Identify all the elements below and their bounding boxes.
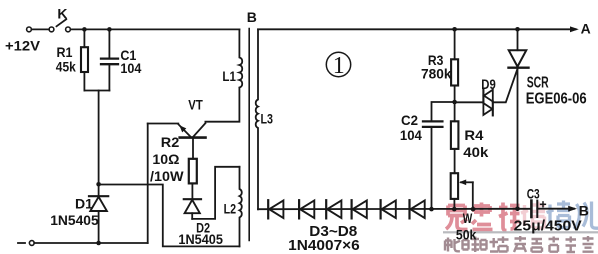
svg-text:A: A (581, 20, 591, 36)
diode D7 (381, 200, 396, 218)
svg-text:104: 104 (400, 127, 422, 143)
node (471, 207, 476, 212)
svg-text:1N5405: 1N5405 (178, 231, 223, 247)
svg-text:L3: L3 (261, 111, 274, 127)
node (96, 241, 101, 246)
diode D2 (184, 199, 201, 219)
wire diode chain (258, 208, 531, 210)
node (515, 207, 520, 212)
svg-text:L1: L1 (222, 68, 236, 84)
svg-text:EGE06-06: EGE06-06 (526, 90, 587, 107)
svg-text:C3: C3 (527, 185, 540, 201)
resistor R3 (451, 29, 458, 102)
wire emitter (148, 123, 179, 125)
node (452, 207, 457, 212)
svg-text:/10W: /10W (150, 168, 184, 184)
watermark peixun blue (547, 201, 598, 230)
diode D3 (268, 200, 283, 218)
svg-text:VT: VT (188, 96, 203, 112)
winding L2 (240, 167, 242, 247)
SCR EGE06-06 (509, 29, 529, 208)
watermark gray rule (443, 231, 598, 233)
node (452, 27, 457, 32)
diode D8 (410, 200, 425, 218)
winding L3 (256, 29, 258, 209)
wire gate (493, 69, 518, 102)
label circled 1 (326, 52, 350, 79)
capacitor C2 (423, 121, 442, 209)
svg-text:W: W (463, 210, 473, 226)
winding L1 (239, 29, 242, 87)
svg-text:1N5405: 1N5405 (50, 212, 99, 228)
diode D1 (89, 196, 108, 243)
node (515, 27, 520, 32)
terminal B (568, 206, 577, 212)
svg-text:104: 104 (120, 60, 141, 76)
svg-text:K: K (57, 5, 67, 21)
wire D2 to L2 (192, 167, 239, 219)
node (429, 207, 434, 212)
svg-text:B: B (247, 9, 257, 25)
svg-text:1: 1 (333, 53, 345, 79)
svg-text:25μ/450V: 25μ/450V (514, 219, 582, 235)
svg-text:C2: C2 (401, 112, 418, 128)
svg-text:10Ω: 10Ω (152, 151, 179, 167)
terminal minus (18, 241, 34, 246)
diode D4 (299, 200, 314, 218)
svg-text:+12V: +12V (5, 38, 41, 54)
svg-text:40k: 40k (463, 144, 488, 160)
svg-text:R2: R2 (161, 134, 180, 150)
switch K (49, 19, 70, 32)
transformer core (248, 29, 250, 241)
watermark pei faint pink (521, 202, 545, 229)
resistor R4 (451, 102, 459, 173)
svg-text:B: B (579, 203, 589, 219)
node (82, 27, 87, 32)
svg-text:50k: 50k (456, 227, 477, 243)
wire (84, 90, 109, 92)
wire (98, 91, 100, 197)
wire L2 return (99, 185, 240, 247)
wire bottom rail (34, 242, 148, 244)
node (107, 27, 112, 32)
resistor R1 (81, 29, 88, 90)
wire (70, 28, 239, 30)
svg-text:780k: 780k (421, 66, 452, 82)
watermark yidituo pink (446, 203, 520, 231)
node (452, 100, 457, 105)
transistor VT (178, 123, 205, 159)
potentiometer W (451, 173, 473, 209)
wire collector to L1 (205, 88, 239, 122)
wire top rail (258, 28, 576, 30)
node (96, 182, 101, 187)
watermark shepin line (445, 236, 594, 252)
diode D6 (352, 200, 367, 218)
wire (455, 101, 484, 103)
terminal +12V (27, 27, 32, 32)
resistor R2 (189, 159, 197, 199)
diode D9 diac (483, 89, 492, 115)
terminal A (570, 26, 579, 32)
diode D5 (326, 200, 341, 218)
svg-text:L2: L2 (224, 201, 237, 217)
wire (432, 102, 455, 121)
svg-text:45k: 45k (56, 58, 76, 74)
svg-text:R4: R4 (464, 127, 483, 143)
capacitor C3 (531, 201, 574, 217)
svg-text:D1: D1 (75, 195, 93, 211)
capacitor C1 (101, 29, 118, 90)
wire (147, 124, 149, 244)
svg-text:1N4007×6: 1N4007×6 (288, 238, 360, 254)
wire (31, 28, 49, 30)
svg-text:SCR: SCR (527, 75, 549, 92)
svg-text:D9: D9 (481, 76, 496, 92)
